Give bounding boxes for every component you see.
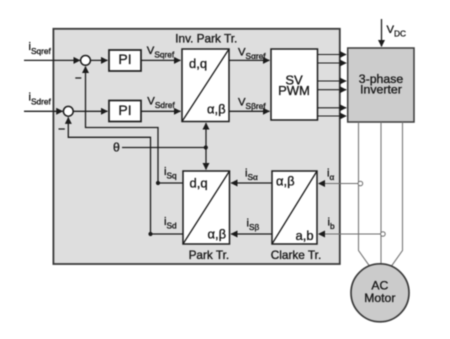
- wire inverse park to SVPWM top: [229, 59, 270, 61]
- svg-text:a,b: a,b: [296, 228, 314, 243]
- wire Clarke to Park bottom: [231, 233, 272, 235]
- svg-text:d,q: d,q: [189, 56, 207, 71]
- svg-text:Inv. Park Tr.: Inv. Park Tr.: [175, 32, 237, 46]
- wire motor phase b: [380, 122, 382, 264]
- wire i_b to Clarke: [319, 233, 382, 235]
- node i_Sd junction: [148, 232, 152, 236]
- current sensor tap i_b: [381, 232, 386, 237]
- svg-text:Park Tr.: Park Tr.: [189, 248, 230, 262]
- wire i_Sd feedback: [68, 117, 183, 234]
- block Clarke transform: [272, 171, 317, 244]
- wire PI2 to inverse park: [141, 110, 181, 112]
- block Park transform: [183, 171, 230, 244]
- wire junction2 to PI2: [74, 110, 108, 112]
- wire V_DC input: [381, 19, 383, 47]
- wire PWM gate signal 5: [318, 107, 347, 109]
- svg-text:α,β: α,β: [207, 102, 226, 117]
- block inverse park transform: [182, 49, 229, 122]
- summing junction 1: [81, 56, 91, 66]
- svg-text:Motor: Motor: [364, 291, 395, 305]
- wire theta to park: [205, 148, 207, 170]
- wire theta to inverse park: [205, 123, 207, 148]
- wire Clarke to Park top: [231, 182, 272, 184]
- PI controller 1: [109, 50, 141, 71]
- node theta junction: [204, 145, 208, 149]
- minus sign 1: [75, 77, 81, 79]
- wire inverse park to SVPWM bottom: [229, 110, 270, 112]
- wire PI1 to inverse park: [141, 59, 181, 61]
- svg-text:Inverter: Inverter: [360, 83, 402, 97]
- wire junction1 to PI1: [91, 59, 108, 61]
- wire motor phase c: [392, 122, 403, 266]
- block SV PWM: [271, 49, 318, 120]
- svg-text:PWM: PWM: [278, 83, 310, 98]
- control system enclosure box: [53, 29, 339, 264]
- wire PWM gate signal 3: [318, 80, 347, 82]
- wire i_Sq feedback: [86, 67, 184, 184]
- wire PWM gate signal 4: [318, 89, 347, 91]
- wire PWM gate signal 1: [318, 54, 347, 56]
- svg-text:α,β: α,β: [276, 174, 295, 189]
- block 3-phase inverter: [348, 48, 414, 122]
- minus sign 2: [59, 128, 65, 130]
- wire PWM gate signal 6: [318, 115, 347, 117]
- wire i_alpha to Clarke: [319, 183, 359, 185]
- wire i_Sdref input: [24, 110, 63, 112]
- AC motor: [351, 264, 409, 322]
- svg-text:α,β: α,β: [208, 227, 227, 242]
- wire theta: [122, 147, 206, 149]
- summing junction 2: [63, 106, 73, 116]
- wire motor phase a: [359, 122, 370, 266]
- wire PWM gate signal 2: [318, 62, 347, 64]
- svg-text:Clarke Tr.: Clarke Tr.: [271, 248, 321, 262]
- node i_Sq junction: [156, 181, 160, 185]
- PI controller 2: [109, 101, 141, 122]
- svg-text:PI: PI: [118, 51, 131, 67]
- wire i_Sqref input: [24, 59, 80, 61]
- svg-text:d,q: d,q: [190, 176, 208, 191]
- svg-text:θ: θ: [113, 140, 120, 154]
- svg-text:PI: PI: [118, 102, 131, 118]
- current sensor tap i_alpha: [358, 181, 363, 186]
